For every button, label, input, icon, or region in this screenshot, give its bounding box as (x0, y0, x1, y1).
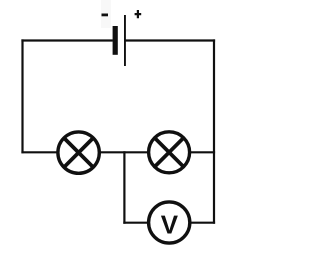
label: plus sign of battery (135, 10, 142, 18)
lamp L1 (left): X cross (64, 138, 93, 167)
wire: junction drop from middle wire down to voltmeter branch (123, 151, 125, 224)
battery: negative plate (short thick bar) (113, 26, 118, 55)
faint highlight behind minus label (101, 0, 111, 28)
label: minus sign of battery (102, 14, 109, 17)
wire: middle horizontal through both lamps (21, 151, 215, 153)
faint highlight behind voltmeter V (161, 211, 178, 246)
lamp L2 (right): X cross (155, 138, 184, 167)
wire: right vertical side (213, 39, 215, 223)
wire: voltmeter branch horizontal (123, 222, 215, 224)
wire: top-right segment from battery positive plate to right corner (126, 39, 216, 41)
wire: top-left segment from left corner to battery negative plate (21, 39, 112, 41)
lamp L1 (left): circle (58, 132, 99, 173)
voltmeter V1: letter V (161, 216, 178, 234)
battery: positive plate (long thin bar) (124, 15, 126, 66)
voltmeter V1: circle (149, 202, 190, 243)
lamp L2 (right): circle (149, 132, 190, 173)
wire: left vertical side (21, 39, 23, 153)
